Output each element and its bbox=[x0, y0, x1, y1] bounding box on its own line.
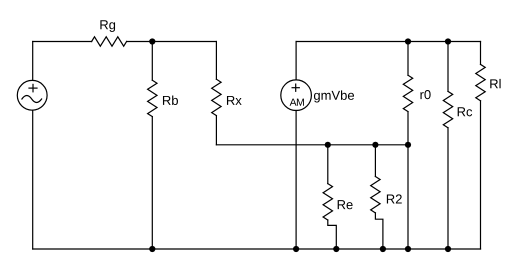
AC voltage source V1 circle bbox=[17, 80, 47, 110]
node dot: Re on bottom rail bbox=[333, 246, 339, 252]
wire: mid rail from Rx corner to r0 bottom bbox=[216, 144, 408, 146]
Re value label bbox=[338, 200, 353, 209]
resistor Rc bbox=[443, 91, 452, 127]
Rb value label bbox=[163, 95, 178, 105]
node dot: Rc on bottom rail bbox=[445, 246, 451, 252]
Rc value label bbox=[458, 107, 472, 116]
resistor Rg (horizontal) bbox=[92, 37, 127, 46]
node dot: gmVbe on bottom rail bbox=[293, 246, 299, 252]
wire: Rl branch from top rail corner bbox=[480, 42, 482, 65]
node dot: r0 on top rail bbox=[405, 38, 411, 44]
wire: Rx bottom down to mid rail corner bbox=[215, 116, 217, 145]
node dot: R2 on bottom rail bbox=[380, 246, 386, 252]
wire: Rb bottom to bottom rail bbox=[151, 117, 153, 249]
wire: AC source bottom to bottom rail bbox=[32, 110, 34, 249]
node dot: junction of Rg and Rb on top rail bbox=[149, 38, 155, 44]
wire: Rx branch from top rail corner bbox=[215, 42, 217, 80]
wire: Re branch from mid rail dot bbox=[327, 145, 329, 184]
wire: bottom rail bbox=[33, 248, 481, 250]
node dot: Rb on bottom rail bbox=[149, 246, 155, 252]
wire: left vertical from top rail to AC source top bbox=[32, 42, 34, 81]
current source AM label bbox=[290, 99, 304, 106]
node dot: Re top on mid rail bbox=[325, 142, 331, 148]
current source plus sign bbox=[292, 87, 299, 89]
wire: Rb branch from top rail dot bbox=[151, 42, 153, 81]
gmVbe value label bbox=[314, 90, 354, 102]
resistor Re bbox=[323, 184, 332, 220]
resistor r0 bbox=[403, 75, 412, 111]
resistor Rl bbox=[476, 64, 485, 100]
node dot: r0 on bottom rail bbox=[405, 246, 411, 252]
wire: top-left rail segment after Rg to Rx corner bbox=[127, 41, 217, 43]
wire: top-left rail segment before Rg bbox=[33, 41, 92, 43]
wire: R2 bottom jog to bottom rail bbox=[375, 213, 383, 249]
resistor R2 bbox=[371, 177, 380, 213]
wire: r0 branch from top rail dot bbox=[407, 42, 409, 76]
node dot: Rc on top rail bbox=[445, 38, 451, 44]
wire: r0 bottom through mid rail to bottom rail bbox=[407, 112, 409, 249]
node dot: r0 on mid rail bbox=[405, 142, 411, 148]
R2 value label bbox=[387, 194, 402, 203]
wire: Rc bottom to bottom rail bbox=[447, 128, 449, 249]
wire: R2 branch from mid rail dot bbox=[374, 145, 376, 177]
wire: gmVbe top vertical from top rail bbox=[295, 42, 297, 80]
wire: Rc branch from top rail dot bbox=[447, 42, 449, 92]
Rl value label bbox=[490, 79, 500, 88]
AC source plus sign bbox=[29, 87, 37, 89]
Rg value label bbox=[100, 20, 115, 32]
current source U1 gmVbe circle bbox=[281, 80, 312, 111]
r0 value label bbox=[420, 90, 430, 99]
wire: gmVbe bottom across mid rail to bottom rail bbox=[295, 111, 297, 250]
wire: Re bottom jog to bottom rail bbox=[328, 220, 337, 249]
wire: top-right rail from gmVbe top to Rl corner bbox=[296, 41, 480, 43]
Rx value label bbox=[227, 96, 242, 105]
wire: Rl bottom to bottom rail corner bbox=[480, 101, 482, 249]
node dot: R2 top on mid rail bbox=[372, 142, 378, 148]
AC source sine wave bbox=[22, 96, 42, 103]
resistor Rx bbox=[212, 79, 221, 115]
resistor Rb bbox=[148, 80, 157, 116]
